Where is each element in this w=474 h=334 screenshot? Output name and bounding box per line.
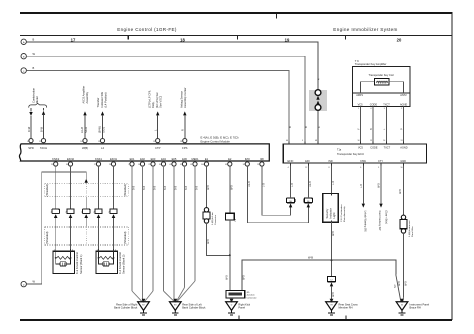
pin E2 xyxy=(225,157,232,166)
svg-text:EKN2: EKN2 xyxy=(67,157,75,161)
wire W(B) to ACO amplifier xyxy=(84,115,86,138)
wire E05 xyxy=(173,166,175,302)
svg-text:1: 1 xyxy=(97,250,98,252)
svg-text:B-W: B-W xyxy=(40,126,44,132)
svg-text:IMI: IMI xyxy=(260,157,264,161)
svg-text:Transponder Key Amplifier: Transponder Key Amplifier xyxy=(355,62,387,66)
wire KNK2 down xyxy=(55,166,57,209)
svg-text:Brace RH: Brace RH xyxy=(410,306,421,310)
svg-text:2: 2 xyxy=(401,108,402,110)
wire TXCT xyxy=(385,107,387,144)
svg-text:40: 40 xyxy=(286,140,288,142)
svg-text:Security: Security xyxy=(325,208,329,218)
svg-text:TACH: TACH xyxy=(40,146,47,150)
wire E04 xyxy=(163,166,165,291)
wire IMI to EFIO xyxy=(262,166,291,215)
svg-text:Indicator SW: Indicator SW xyxy=(100,92,104,108)
wire IND lower xyxy=(331,222,333,276)
wire E1 upper xyxy=(206,166,208,208)
svg-text:E3: E3 xyxy=(174,304,176,306)
node D circle xyxy=(21,281,26,286)
ground G5 xyxy=(396,299,408,315)
node A circle xyxy=(21,39,26,44)
svg-text:(Shielded): (Shielded) xyxy=(45,184,49,196)
bottom tick 2 xyxy=(345,315,347,318)
svg-text:Transfer: Transfer xyxy=(96,97,100,107)
junction connector J5 xyxy=(226,291,245,298)
svg-text:6: 6 xyxy=(360,167,361,169)
svg-text:4: 4 xyxy=(288,167,289,169)
svg-text:24: 24 xyxy=(243,164,245,166)
wire GND lower xyxy=(403,233,405,297)
svg-text:CTP: CTP xyxy=(155,146,161,150)
knock sensor 1 element xyxy=(56,251,71,264)
svg-text:Engine Immobilizer System: Engine Immobilizer System xyxy=(333,27,397,32)
svg-text:NIO2: NIO2 xyxy=(84,126,88,133)
svg-text:19: 19 xyxy=(153,141,155,143)
svg-text:25: 25 xyxy=(148,164,150,166)
connector 5E EFIO xyxy=(287,198,295,203)
pin ME01 xyxy=(190,157,199,166)
svg-text:B-B: B-B xyxy=(143,186,146,191)
svg-text:Sensor (Bank 1): Sensor (Bank 1) xyxy=(79,254,83,274)
svg-text:W-B: W-B xyxy=(405,281,408,286)
drain lower segment xyxy=(85,197,87,209)
inline connector IK1 shaded box xyxy=(309,90,327,111)
svg-text:1: 1 xyxy=(54,250,55,252)
svg-text:14: 14 xyxy=(80,141,82,143)
pin EKN2 xyxy=(66,157,75,166)
svg-text:AGND: AGND xyxy=(400,104,407,107)
svg-text:LG-B: LG-B xyxy=(309,181,312,187)
svg-text:L-B: L-B xyxy=(263,183,266,187)
lower shield top dashed xyxy=(45,226,129,228)
W-B bus wire xyxy=(242,260,396,290)
node C circle xyxy=(21,68,26,73)
svg-text:L-B: L-B xyxy=(360,184,363,188)
svg-text:E2: E2 xyxy=(142,304,144,306)
upper shield bottom dashed xyxy=(45,196,129,198)
junction dot IND bus xyxy=(331,259,333,261)
wire E2 upper xyxy=(229,166,231,213)
svg-text:VC5: VC5 xyxy=(358,147,363,150)
svg-text:IJ: IJ xyxy=(331,280,333,282)
pin E1b xyxy=(201,157,209,166)
connector 5E EFII xyxy=(304,198,312,203)
svg-text:16: 16 xyxy=(138,164,140,166)
svg-text:(Shielded): (Shielded) xyxy=(123,184,127,196)
header section tick xyxy=(275,14,277,18)
pin E04 xyxy=(159,157,166,166)
lower shield right edge xyxy=(127,227,129,245)
svg-text:E1: E1 xyxy=(205,157,209,161)
knock sensor 1 terminals xyxy=(55,249,57,251)
wire L4 to transfer indicator xyxy=(102,115,104,138)
svg-text:B-B: B-B xyxy=(196,186,199,191)
svg-text:8: 8 xyxy=(329,167,330,169)
lower shield middle dotted edge xyxy=(85,227,87,245)
svg-text:K-3 Knock Control: K-3 Knock Control xyxy=(75,252,79,274)
knock sensor 2 box xyxy=(96,251,118,273)
coil L1 winding xyxy=(376,81,387,83)
wire KNK1 to sensor xyxy=(98,218,100,251)
inline connector IIA xyxy=(401,215,405,219)
right page border xyxy=(451,13,453,320)
inline connector IH1 xyxy=(204,208,208,212)
svg-text:(for LPG) Sec: (for LPG) Sec xyxy=(155,91,159,108)
ECU top pin ticks xyxy=(289,142,404,144)
svg-text:IJ: IJ xyxy=(231,304,233,306)
svg-text:K-2 Knock Control: K-2 Knock Control xyxy=(118,252,122,274)
wire A to ECU pin 4 xyxy=(26,42,318,144)
svg-text:A/CO Amplifier: A/CO Amplifier xyxy=(81,86,85,104)
drain stub to lower shield xyxy=(85,218,87,227)
svg-text:B: B xyxy=(288,126,292,128)
pin EKN1 xyxy=(109,157,118,166)
svg-text:Combination: Combination xyxy=(32,87,36,103)
svg-text:48: 48 xyxy=(315,140,317,142)
svg-text:GND: GND xyxy=(400,160,406,163)
upper shield left edge xyxy=(44,184,46,197)
svg-text:B: B xyxy=(304,126,308,128)
pin SPD xyxy=(30,143,32,144)
svg-text:E03: E03 xyxy=(151,157,156,161)
amplifier U1 box xyxy=(353,67,411,107)
svg-text:SPD: SPD xyxy=(28,146,34,150)
ruler tick 3 xyxy=(345,36,347,40)
svg-text:(Shielded): (Shielded) xyxy=(45,232,49,244)
wire EKN1 down xyxy=(113,166,115,209)
wire ME01 xyxy=(194,166,196,281)
svg-text:34: 34 xyxy=(159,164,161,166)
svg-text:W-B: W-B xyxy=(242,275,245,280)
svg-text:Assembly: Assembly xyxy=(85,91,89,103)
svg-text:Unlock Warning SW: Unlock Warning SW xyxy=(364,211,367,233)
combination meter brace xyxy=(29,103,47,107)
ECU bottom pin CTY xyxy=(380,163,382,165)
ECU box xyxy=(283,144,426,163)
svg-text:W-B: W-B xyxy=(207,185,210,190)
svg-text:B-B: B-B xyxy=(185,186,188,191)
wire E1 lower xyxy=(207,223,230,255)
svg-text:B-B: B-B xyxy=(154,186,157,191)
svg-text:43: 43 xyxy=(169,164,171,166)
shield connector drain xyxy=(83,209,90,218)
wire SPD to combination meter xyxy=(30,116,32,139)
svg-text:T1a: T1a xyxy=(337,149,342,152)
wire to ground G4 xyxy=(331,286,333,301)
svg-text:10: 10 xyxy=(401,167,403,169)
pin E03 xyxy=(148,157,155,166)
svg-text:Connector: Connector xyxy=(246,296,256,299)
svg-text:LG-B: LG-B xyxy=(80,127,84,133)
svg-text:Transponder Key Coil: Transponder Key Coil xyxy=(369,73,394,77)
upper shield right edge xyxy=(127,184,129,197)
wire E03 xyxy=(152,166,154,291)
svg-text:GIO1: GIO1 xyxy=(101,126,105,133)
svg-text:7: 7 xyxy=(128,164,129,166)
coil wire left xyxy=(361,82,375,93)
svg-text:23: 23 xyxy=(257,164,259,166)
svg-text:(Shielded): (Shielded) xyxy=(123,232,127,244)
knock sensor 2 element xyxy=(99,251,114,264)
coil L1 box xyxy=(375,79,389,85)
svg-text:AMP1: AMP1 xyxy=(356,94,363,97)
svg-text:EFIO: EFIO xyxy=(288,160,294,163)
svg-text:12: 12 xyxy=(305,167,307,169)
svg-text:2: 2 xyxy=(115,250,116,252)
svg-text:4: 4 xyxy=(370,108,371,110)
pin KNK1 xyxy=(94,157,103,166)
inline connector IK1 upper arrow xyxy=(316,96,319,100)
svg-text:W-B: W-B xyxy=(230,185,233,190)
pin TACH xyxy=(43,143,45,144)
ECU bottom pin KSW xyxy=(362,163,364,165)
svg-text:W-B: W-B xyxy=(399,189,402,194)
knock sensor 2 terminals xyxy=(98,249,100,251)
svg-text:VC5: VC5 xyxy=(358,104,363,107)
ground G3 xyxy=(226,299,238,315)
svg-text:L-R: L-R xyxy=(332,181,335,185)
bottom border bar xyxy=(20,319,452,321)
column ruler line xyxy=(20,35,452,37)
svg-text:KNK1: KNK1 xyxy=(95,157,103,161)
svg-text:52: 52 xyxy=(180,164,182,166)
svg-text:E05: E05 xyxy=(172,157,177,161)
svg-text:IMO: IMO xyxy=(245,157,250,161)
wire CTP xyxy=(157,115,159,138)
wire KNK2 to sensor xyxy=(55,218,57,251)
wire E06 xyxy=(184,166,186,287)
svg-text:Panel Wire: Panel Wire xyxy=(411,226,414,237)
wire IMO to EFII xyxy=(247,166,308,223)
svg-text:Airbag Sensor: Airbag Sensor xyxy=(179,91,183,108)
svg-text:Light: Light xyxy=(332,212,336,218)
wire J5 to ground xyxy=(231,298,233,302)
svg-text:12: 12 xyxy=(39,141,41,143)
svg-text:E01: E01 xyxy=(130,157,135,161)
svg-text:EFII: EFII xyxy=(305,160,310,163)
svg-text:CODE: CODE xyxy=(370,147,378,150)
svg-text:CODE: CODE xyxy=(370,104,378,107)
svg-text:W-B: W-B xyxy=(332,231,335,236)
ground G2 xyxy=(170,299,182,315)
svg-text:29: 29 xyxy=(51,164,53,166)
svg-text:E04: E04 xyxy=(161,157,166,161)
pin KNK2 xyxy=(51,157,60,166)
shield drain wire from node D xyxy=(26,172,86,284)
knock sensor 1 box xyxy=(53,251,75,273)
svg-text:45: 45 xyxy=(225,164,227,166)
ECU bottom pin EFIO xyxy=(290,163,292,165)
svg-text:L4: L4 xyxy=(101,146,104,150)
svg-text:B-B: B-B xyxy=(175,186,178,191)
svg-text:(CTP)+LP CF9,: (CTP)+LP CF9, xyxy=(147,90,151,108)
shield connector KNK2 xyxy=(52,209,59,218)
wire GND upper xyxy=(403,165,405,215)
upper shield middle dotted edge xyxy=(85,184,87,197)
coil wire right xyxy=(389,82,404,93)
shield connector KNK1 xyxy=(95,209,102,218)
svg-text:Bank Cylinder Block: Bank Cylinder Block xyxy=(114,306,138,310)
svg-text:KNK2: KNK2 xyxy=(52,157,60,161)
svg-text:TXCT: TXCT xyxy=(383,104,390,107)
svg-text:27: 27 xyxy=(94,164,96,166)
svg-text:W-B: W-B xyxy=(308,256,313,260)
svg-text:E2: E2 xyxy=(228,157,232,161)
shield connector EKN2 xyxy=(67,209,74,218)
wire EKN1 to sensor xyxy=(113,218,115,251)
svg-text:Panel: Panel xyxy=(238,306,245,310)
svg-text:W-B: W-B xyxy=(226,275,229,280)
upper shield top dashed xyxy=(45,183,129,185)
svg-text:20: 20 xyxy=(397,38,402,43)
wire KNK1 down xyxy=(98,166,100,209)
node B circle xyxy=(21,54,26,59)
svg-text:104: 104 xyxy=(201,164,204,166)
svg-text:Engine Control (1GR-FE): Engine Control (1GR-FE) xyxy=(117,27,177,32)
svg-text:(Door +Side): (Door +Side) xyxy=(384,211,387,225)
svg-text:13: 13 xyxy=(98,141,100,143)
connector IJ2 xyxy=(327,276,335,281)
pin E02 xyxy=(138,157,145,166)
pin L4 xyxy=(102,143,104,144)
svg-text:AGND: AGND xyxy=(400,147,407,150)
svg-text:E02: E02 xyxy=(140,157,145,161)
wire C to ECU pin 18 xyxy=(26,71,289,144)
svg-text:Connector: Connector xyxy=(214,215,217,225)
svg-text:14: 14 xyxy=(383,140,385,142)
ECU bottom pin GND xyxy=(403,163,405,165)
svg-text:W-B: W-B xyxy=(207,239,210,244)
junction dot E1 E2 xyxy=(229,254,231,256)
svg-text:1-I(B) In-Line: 1-I(B) In-Line xyxy=(212,211,214,225)
svg-text:3: 3 xyxy=(384,108,385,110)
svg-text:Ster VSC2: Ster VSC2 xyxy=(159,95,163,108)
svg-text:Rally,: Rally, xyxy=(151,101,155,108)
wire KSW xyxy=(362,165,364,203)
bottom tick 1 xyxy=(238,315,240,318)
svg-text:(B-W): (B-W) xyxy=(98,126,102,133)
security indicator light box xyxy=(323,194,339,223)
wire AGND xyxy=(403,107,405,144)
svg-text:E06: E06 xyxy=(182,157,187,161)
svg-text:B: B xyxy=(33,38,35,42)
svg-text:B-B: B-B xyxy=(133,186,136,191)
svg-text:IND: IND xyxy=(328,160,333,163)
inline connector IK1 lower arrow xyxy=(316,101,319,105)
wire EKN2 to sensor xyxy=(70,218,72,251)
svg-text:C-11 Combination: C-11 Combination xyxy=(340,204,343,222)
svg-text:Assembly Center: Assembly Center xyxy=(183,87,187,108)
svg-text:28: 28 xyxy=(109,164,111,166)
wire EKN2 down xyxy=(70,166,72,209)
svg-text:B: B xyxy=(33,66,35,70)
junction connector J6 xyxy=(225,213,234,220)
pin IMI xyxy=(257,157,264,166)
svg-text:W-B: W-B xyxy=(398,281,401,286)
pin E06 xyxy=(180,157,187,166)
pin CTP xyxy=(157,143,159,144)
svg-text:L-B: L-B xyxy=(291,183,294,187)
shield connector EKN1 xyxy=(110,209,117,218)
wire EFIO down xyxy=(290,163,292,198)
pin E05 xyxy=(169,157,176,166)
svg-text:FPS: FPS xyxy=(182,146,187,150)
wire E01 xyxy=(131,166,133,291)
svg-text:1: 1 xyxy=(358,108,359,110)
svg-text:Engine Control Module: Engine Control Module xyxy=(201,139,231,143)
svg-text:Indicator: Indicator xyxy=(328,208,332,218)
wire CODE xyxy=(372,107,374,144)
pin E1 xyxy=(128,157,135,166)
inline connector IK1 lower half xyxy=(315,105,321,111)
svg-text:W-B: W-B xyxy=(378,183,381,188)
svg-text:1-I(A) Instrument: 1-I(A) Instrument xyxy=(408,220,411,237)
svg-text:R-W: R-W xyxy=(27,126,31,132)
svg-text:ANT2: ANT2 xyxy=(400,94,407,97)
wire FPS to airbag sensor xyxy=(184,115,186,138)
svg-text:9: 9 xyxy=(302,140,303,142)
svg-text:5: 5 xyxy=(378,167,379,169)
amplifier divider xyxy=(353,92,411,94)
svg-text:Junction: Junction xyxy=(246,294,255,297)
svg-text:23: 23 xyxy=(180,141,182,143)
wire EFII down xyxy=(307,163,309,198)
drain arrow into shield xyxy=(85,179,88,183)
svg-text:LG-B: LG-B xyxy=(248,181,251,187)
svg-text:ME01: ME01 xyxy=(191,157,199,161)
wire B to ECU pin 9 xyxy=(26,56,305,144)
svg-text:2: 2 xyxy=(72,250,73,252)
wire E02 xyxy=(142,166,144,302)
svg-text:(L4 Position): (L4 Position) xyxy=(104,92,108,107)
ruler tick 2 xyxy=(237,36,239,40)
svg-text:TXCT: TXCT xyxy=(384,147,391,150)
svg-text:30: 30 xyxy=(66,164,68,166)
lower shield bottom dashed xyxy=(45,244,129,246)
inline connector IK1 upper half xyxy=(315,90,321,96)
ruler tick 1 xyxy=(127,36,129,40)
svg-text:W-B: W-B xyxy=(332,292,335,297)
ECU bottom pin EFII xyxy=(307,163,309,165)
svg-text:8: 8 xyxy=(27,141,28,143)
svg-text:B-B: B-B xyxy=(164,186,167,191)
svg-text:Member RH: Member RH xyxy=(339,306,353,310)
ground G1 xyxy=(138,299,150,315)
engine control module outline xyxy=(19,144,269,161)
wire CTY xyxy=(380,165,382,203)
svg-text:W(B): W(B) xyxy=(82,146,88,150)
svg-text:Transponder Key ECU: Transponder Key ECU xyxy=(337,152,364,156)
lower shield left edge xyxy=(44,227,46,245)
svg-text:15: 15 xyxy=(370,140,372,142)
svg-text:13: 13 xyxy=(401,140,403,142)
svg-text:Bank Cylinder Block: Bank Cylinder Block xyxy=(182,306,206,310)
svg-text:Meter: Meter xyxy=(35,96,39,103)
ground G4 xyxy=(326,299,338,315)
wire IND upper xyxy=(331,165,333,193)
svg-text:Meter Assembly: Meter Assembly xyxy=(343,206,346,222)
svg-text:Door Courtesy SW: Door Courtesy SW xyxy=(378,211,381,232)
svg-text:R: R xyxy=(181,129,185,131)
top header bar xyxy=(20,12,453,14)
svg-text:Sensor (Bank 2): Sensor (Bank 2) xyxy=(122,254,126,274)
svg-text:CTY: CTY xyxy=(378,160,383,163)
pin FPS xyxy=(184,143,186,144)
svg-text:EKN1: EKN1 xyxy=(110,157,118,161)
wire TACH to combination meter xyxy=(43,115,45,139)
